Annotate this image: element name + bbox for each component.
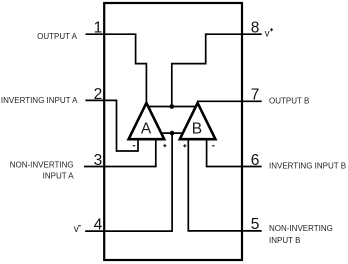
wire pin3 to A non-inverting input bbox=[84, 140, 156, 167]
IC package outline U1 bbox=[104, 3, 242, 260]
node V+ rail junction bbox=[169, 104, 174, 109]
wire pin1 to op-amp A output (apex) bbox=[86, 34, 147, 103]
svg-text:OUTPUT B: OUTPUT B bbox=[269, 96, 309, 105]
svg-text:1: 1 bbox=[94, 20, 103, 37]
svg-text:INVERTING INPUT B: INVERTING INPUT B bbox=[269, 161, 346, 170]
op-amp A bbox=[129, 103, 165, 139]
wire pin5 to B non-inverting input bbox=[188, 140, 261, 231]
svg-text:INPUT A: INPUT A bbox=[43, 172, 75, 181]
wire pin6 to B inverting input bbox=[207, 140, 262, 167]
A inverting input mark - bbox=[133, 145, 136, 147]
svg-text:NON-INVERTING: NON-INVERTING bbox=[269, 224, 333, 233]
wire pin8 V+ to supply rail junction bbox=[172, 34, 262, 106]
svg-text:INPUT B: INPUT B bbox=[269, 236, 300, 245]
B non-inverting input mark + bbox=[183, 144, 186, 147]
wire pin2 to A inverting input bbox=[85, 100, 138, 151]
svg-text:5: 5 bbox=[251, 216, 260, 233]
wire pin4 V- up to supply rail junction bbox=[85, 133, 172, 231]
A non-inverting input mark + bbox=[163, 144, 166, 147]
svg-text:3: 3 bbox=[94, 152, 103, 169]
svg-text:B: B bbox=[192, 121, 202, 138]
svg-text:2: 2 bbox=[94, 86, 103, 103]
op-amp B bbox=[180, 103, 216, 139]
svg-text:6: 6 bbox=[251, 152, 260, 169]
svg-text:NON-INVERTING: NON-INVERTING bbox=[10, 161, 74, 170]
svg-text:8: 8 bbox=[251, 20, 260, 37]
svg-text:OUTPUT A: OUTPUT A bbox=[37, 32, 78, 41]
svg-text:v: v bbox=[74, 224, 79, 235]
svg-text:4: 4 bbox=[94, 217, 103, 234]
wire pin7 to op-amp B output (apex) bbox=[197, 100, 261, 102]
wire V+ supply rail between A and B bbox=[147, 106, 196, 108]
B inverting input mark - bbox=[212, 145, 215, 147]
svg-text:7: 7 bbox=[251, 86, 260, 103]
svg-text:INVERTING INPUT A: INVERTING INPUT A bbox=[1, 96, 78, 105]
svg-text:A: A bbox=[141, 121, 152, 138]
wire V- supply rail between A and B bbox=[161, 132, 183, 134]
svg-text:v: v bbox=[265, 28, 270, 39]
node V- rail junction bbox=[170, 131, 175, 136]
